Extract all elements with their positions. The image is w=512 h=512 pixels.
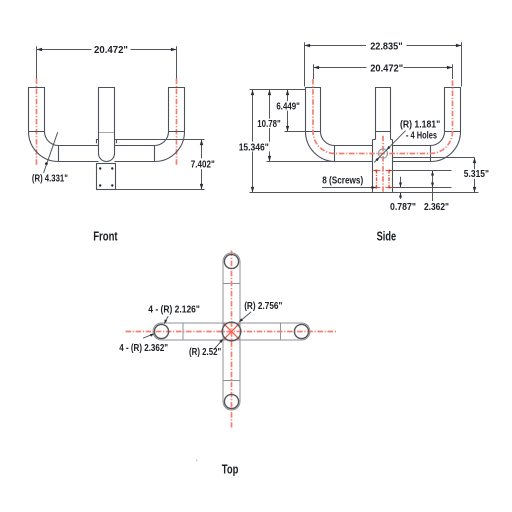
front: extension lines for 7.402 [116, 140, 205, 190]
svg-text:5.315": 5.315" [464, 169, 489, 180]
front: saddle ears [97, 140, 117, 144]
front: right elbow [155, 132, 185, 162]
svg-text:Front: Front [93, 228, 118, 243]
side: red centerline tenon [382, 136, 384, 194]
top: red diagonals [224, 324, 240, 340]
side: hidden screws red lines [377, 170, 390, 188]
top: center circle [222, 322, 241, 341]
side: reference lines right [373, 158, 479, 193]
svg-text:(R) 2.52": (R) 2.52" [189, 347, 221, 358]
side: right elbow [431, 132, 461, 162]
front: middle arm bend seen end-on (U saddle) [99, 133, 115, 162]
faint speck artifact [196, 460, 197, 461]
front: mounting plate [97, 164, 116, 190]
svg-text:20.472": 20.472" [94, 45, 128, 56]
side: leader for 4 holes [374, 131, 405, 163]
svg-text:(R) 1.181": (R) 1.181" [400, 120, 440, 131]
svg-text:4 - (R) 2.362": 4 - (R) 2.362" [119, 343, 168, 354]
side: dimension 20.472 line [314, 64, 453, 79]
side: center tenon lower (wide) [373, 140, 393, 193]
top: red centerline horizontal [126, 331, 337, 333]
top: leader 2.126 [165, 316, 169, 323]
front: extension lines for 20.472 [37, 46, 177, 78]
top: leader 2.52 [214, 340, 223, 350]
front: leader line for R 4.331 [44, 132, 58, 173]
side: dimension 6.449 line [287, 90, 289, 132]
top: tip circles [224, 254, 238, 268]
front: dimension 20.472 line [37, 49, 177, 51]
svg-text:Top: Top [222, 461, 239, 476]
svg-text:Side: Side [377, 228, 397, 243]
side: center tenon upper tube [376, 88, 391, 140]
front: right arm tube [169, 88, 185, 132]
side: extension lines left [250, 90, 373, 193]
front: middle arm tube [99, 88, 115, 133]
top: leader 2.362 [143, 334, 153, 338]
front: left arm tube [29, 88, 45, 132]
front: dimension 7.402 line [201, 140, 203, 190]
svg-text:20.472": 20.472" [370, 63, 403, 74]
top: leader 2.756 [240, 312, 251, 321]
side: dimension 15.346 line [252, 90, 254, 193]
svg-text:22.835": 22.835" [370, 41, 402, 52]
front: red centerline right arm [176, 79, 178, 167]
svg-text:(R) 4.331": (R) 4.331" [32, 173, 68, 184]
svg-text:8 (Screws): 8 (Screws) [322, 175, 363, 186]
side: dimension 0.787 [400, 177, 402, 199]
svg-text:- 4 Holes: - 4 Holes [406, 131, 437, 142]
svg-text:2.362": 2.362" [424, 202, 449, 213]
svg-text:0.787": 0.787" [390, 202, 416, 213]
side: dimension 22.835 line [305, 42, 462, 86]
front: crossbar tube [59, 146, 155, 162]
top: red centerline vertical [231, 251, 233, 428]
side: left elbow [306, 132, 336, 162]
front: plate screw dots [99, 167, 101, 169]
top: vertical arm outline [223, 253, 240, 410]
top: joint lines [183, 284, 281, 381]
side: hole circle R 1.181 [378, 149, 387, 158]
top: horizontal arm outline [153, 323, 310, 340]
side: dimension 5.315 line [474, 158, 476, 193]
front: red centerline left arm [36, 79, 38, 167]
front: left elbow [29, 132, 59, 162]
svg-text:15.346": 15.346" [239, 142, 269, 153]
side: left arm tube [306, 88, 321, 132]
side: red centerline bullhorn path [313, 79, 453, 154]
side: dimension 2.362 [432, 171, 434, 202]
svg-text:(R) 2.756": (R) 2.756" [244, 301, 282, 312]
svg-text:4 - (R) 2.126": 4 - (R) 2.126" [148, 304, 200, 315]
side: leader 8 screws [322, 187, 376, 189]
side: crossbar tube [335, 146, 431, 162]
side: dimension 10.78 line [269, 90, 271, 162]
svg-text:10.78": 10.78" [257, 119, 281, 130]
svg-text:6.449": 6.449" [276, 101, 300, 112]
svg-text:7.402": 7.402" [191, 159, 215, 170]
side: right arm tube [445, 88, 461, 132]
